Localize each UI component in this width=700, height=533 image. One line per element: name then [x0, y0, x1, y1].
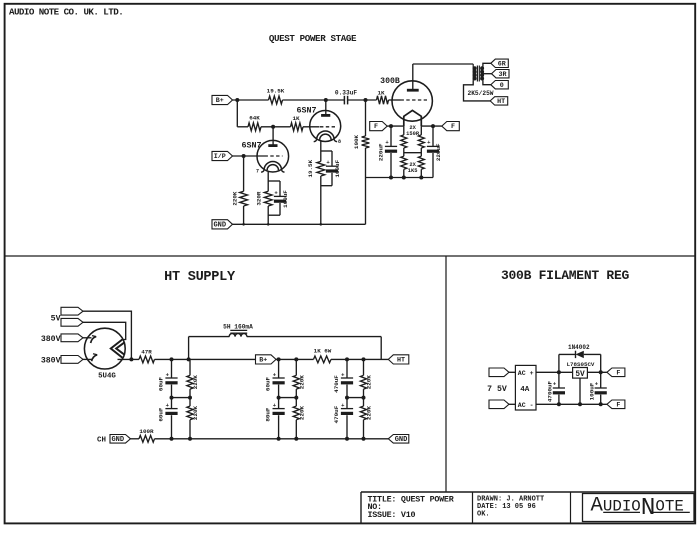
- svg-text:B+: B+: [259, 357, 267, 365]
- wire V2 plate stem: [325, 100, 327, 114]
- svg-text:F: F: [616, 369, 620, 377]
- resistor 1K 6W: [314, 356, 331, 363]
- label 100uF reg: [588, 382, 595, 400]
- svg-text:19.5K: 19.5K: [307, 159, 314, 177]
- svg-text:220K: 220K: [232, 191, 239, 206]
- node 5V winding b: [61, 318, 83, 326]
- node F out lower: [607, 400, 625, 409]
- label 19.5K: [267, 87, 285, 94]
- wire 64K to 1K: [261, 125, 291, 129]
- svg-text:GND: GND: [395, 436, 408, 444]
- resistor 220K row2 at x=296: [293, 406, 299, 420]
- V1 grid: [265, 155, 283, 157]
- label 60uF row1: [264, 376, 271, 391]
- resistor 220K row2 at x=363: [360, 406, 366, 420]
- transformer OPT secondary: [480, 66, 484, 80]
- wire 380V lower: [83, 358, 93, 360]
- title 300B FILAMENT REG: [501, 268, 630, 283]
- wire V1 cap bottom: [279, 203, 281, 215]
- svg-text:64K: 64K: [249, 115, 260, 122]
- label 60uF row1: [157, 376, 164, 391]
- label 80uF row2: [264, 407, 271, 422]
- node B+: [212, 95, 233, 105]
- node GND supply: [388, 435, 409, 444]
- wire B+ to 19.5K: [233, 98, 269, 102]
- section divider vertical: [445, 256, 447, 492]
- svg-text:220K: 220K: [366, 405, 373, 420]
- wire cap branch V1: [279, 181, 281, 196]
- resistor 1K grid stopper: [377, 96, 389, 104]
- resistor 19.5K cathode: [317, 161, 325, 176]
- svg-text:QUEST POWER STAGE: QUEST POWER STAGE: [269, 33, 357, 44]
- wire diode leg right: [600, 354, 602, 372]
- label 220K row2 at x=296: [299, 405, 306, 420]
- svg-text:1K 6W: 1K 6W: [314, 347, 332, 354]
- wire cap column bottom: [278, 415, 280, 439]
- svg-text:7 5V: 7 5V: [487, 385, 507, 394]
- V2 grid: [320, 126, 335, 128]
- resistor 150R right: [418, 135, 424, 148]
- label CH: [97, 436, 106, 444]
- svg-text:1K: 1K: [377, 89, 385, 96]
- node F left: [370, 122, 388, 132]
- label 220uF right: [435, 143, 442, 161]
- node 5V winding a: [61, 307, 83, 315]
- svg-text:5U4G: 5U4G: [98, 373, 116, 381]
- label 5V: [51, 314, 61, 323]
- label 220K row1 at x=363: [366, 375, 373, 390]
- triode V1 6SN7 envelope: [257, 140, 289, 172]
- wire ground rail: [233, 223, 366, 226]
- resistor 100K: [362, 136, 370, 148]
- svg-text:ISSUE: V10: ISSUE: V10: [368, 510, 416, 520]
- wire cap branch V2: [331, 151, 333, 166]
- wire B+ branch down: [236, 100, 238, 127]
- 5U4G anode lower: [92, 354, 98, 361]
- resistor 220K row1 at x=363: [360, 375, 366, 389]
- wire I/P to V1 grid: [233, 154, 265, 158]
- svg-text:220K: 220K: [192, 405, 199, 420]
- wire 5V b: [83, 322, 126, 339]
- wire sec top tap: [483, 63, 491, 66]
- wire 300B plate stem: [412, 64, 414, 89]
- wire mid tie: [277, 396, 299, 400]
- label L78S05CV: [567, 361, 595, 368]
- logo AUDIONOTE: [591, 495, 690, 522]
- wire cap column top 60uF: [278, 359, 280, 377]
- rectifier 5U4G envelope: [84, 328, 125, 369]
- wire cap column mid: [171, 385, 173, 409]
- label 64K: [249, 115, 260, 122]
- 300B grid: [401, 99, 428, 101]
- capacitor 100uF V1 bypass: [274, 196, 286, 202]
- capacitor 470uF row1: [341, 371, 353, 384]
- wire cap column top 470uF: [346, 359, 348, 377]
- svg-text:7: 7: [256, 169, 259, 175]
- node 380V lower: [61, 356, 83, 364]
- node CH GND: [110, 435, 131, 444]
- V2 cathode: [314, 131, 337, 142]
- diode 1N4002: [576, 351, 584, 358]
- resistor 1K5 right: [418, 156, 424, 169]
- wire cathode network bottom rail: [366, 176, 434, 180]
- capacitor 60uF row2: [165, 402, 177, 415]
- wire 47R to B+ rail: [155, 357, 256, 361]
- title block text middle: [477, 495, 544, 518]
- capacitor 60uF row1: [273, 371, 285, 384]
- capacitor 80uF row2: [273, 402, 285, 415]
- label 380V upper: [41, 335, 61, 344]
- wire supply ground rail: [155, 437, 389, 441]
- svg-text:100uF: 100uF: [282, 190, 289, 208]
- label 7 5V: [487, 385, 507, 394]
- transformer OPT core: [477, 66, 479, 82]
- node AC input lower: [489, 400, 509, 409]
- resistor 320R cathode: [264, 191, 272, 206]
- svg-text:220uF: 220uF: [377, 143, 384, 161]
- resistor 47R: [139, 356, 154, 363]
- V1 plate: [268, 144, 277, 147]
- label + left 220uF: [385, 139, 389, 146]
- label 100uF V1: [282, 190, 289, 208]
- wire diode top left: [559, 353, 576, 355]
- wire 220K bottom: [243, 206, 245, 224]
- wire 100K top: [365, 100, 367, 136]
- label 300B: [380, 77, 400, 86]
- wire reg out: [587, 370, 607, 374]
- label 2X 150R: [406, 125, 420, 137]
- wire 19.5K to cap: [283, 98, 345, 102]
- node I/P: [212, 151, 233, 161]
- svg-text:300B FILAMENT REG: 300B FILAMENT REG: [501, 268, 630, 283]
- svg-text:6R: 6R: [498, 60, 506, 68]
- transformer OPT primary: [473, 64, 477, 81]
- capacitor 470uF row2: [341, 402, 353, 415]
- svg-text:I/P: I/P: [214, 153, 226, 161]
- capacitor 220uF left: [385, 146, 397, 152]
- svg-text:HT: HT: [397, 357, 405, 365]
- wire choke riser left: [188, 337, 190, 360]
- wire 320R to gnd: [267, 206, 269, 224]
- capacitor 4700uF: [553, 372, 565, 404]
- svg-text:0.33uF: 0.33uF: [335, 90, 358, 97]
- resistor 150R left: [401, 135, 407, 148]
- wire V1 cath tie top: [268, 180, 280, 182]
- title block frame: [361, 492, 695, 523]
- node F right: [442, 122, 460, 132]
- wire V1 cathode down: [267, 171, 269, 181]
- V2 pin 8: [338, 139, 341, 145]
- wire V2 cath to gnd: [320, 176, 322, 224]
- wire res column top: [295, 359, 297, 375]
- wire V2 cap bottom: [331, 173, 333, 186]
- svg-text:1K5: 1K5: [408, 168, 418, 174]
- svg-text:3R: 3R: [498, 71, 506, 79]
- svg-text:100uF: 100uF: [334, 159, 341, 177]
- node 0: [491, 81, 509, 90]
- section divider horizontal: [5, 255, 696, 257]
- svg-text:4700uF: 4700uF: [547, 380, 554, 402]
- wire cap column top 60uF: [171, 359, 173, 377]
- svg-text:2K5/25W: 2K5/25W: [468, 90, 494, 97]
- resistor 220K row2 at x=190: [187, 406, 193, 420]
- wire V2 cath tie bottom: [321, 185, 332, 187]
- label 380V lower: [41, 356, 61, 365]
- wire 1K5 bottoms: [404, 169, 422, 177]
- wire sec bottom tap: [483, 81, 491, 85]
- svg-text:150R: 150R: [406, 131, 420, 137]
- title HT SUPPLY: [164, 270, 236, 285]
- label 6SN7 V1: [241, 140, 261, 150]
- choke 5H 160mA: [229, 330, 247, 336]
- svg-text:60uF: 60uF: [264, 376, 271, 391]
- svg-text:8: 8: [338, 139, 341, 145]
- svg-text:CH: CH: [97, 436, 106, 444]
- capacitor 220uF left top wire: [390, 126, 392, 146]
- svg-text:380V: 380V: [41, 356, 61, 365]
- label 19.5K cathode: [307, 159, 314, 177]
- svg-text:47R: 47R: [141, 348, 152, 355]
- wire res column bottom: [189, 420, 191, 439]
- svg-text:AUDIO NOTE CO. UK. LTD.: AUDIO NOTE CO. UK. LTD.: [9, 7, 123, 18]
- label 2K5/25W: [468, 90, 494, 97]
- wire F right rail: [421, 124, 442, 128]
- wire row2 left: [237, 126, 248, 128]
- wire CHGND to 100R: [131, 438, 140, 440]
- title QUEST POWER STAGE: [269, 33, 357, 44]
- bridge rectifier 4A: [515, 365, 536, 410]
- svg-text:6SN7: 6SN7: [296, 106, 316, 116]
- capacitor 220uF right: [427, 146, 439, 152]
- label 4700uF: [547, 380, 554, 402]
- wire 5V a: [83, 311, 131, 359]
- svg-text:B+: B+: [216, 97, 224, 105]
- 5U4G filament: [111, 340, 125, 358]
- wire res column top: [189, 359, 191, 375]
- label 220K: [232, 191, 239, 206]
- svg-text:5V: 5V: [51, 314, 61, 323]
- node B+ supply: [256, 355, 277, 365]
- svg-text:320R: 320R: [255, 191, 262, 206]
- 300B filament: [404, 110, 422, 126]
- wire choke top right: [247, 336, 381, 338]
- svg-text:F: F: [616, 401, 620, 409]
- label 5H 160mA: [223, 323, 253, 330]
- wire mid tie: [170, 396, 193, 400]
- svg-text:470uF: 470uF: [333, 405, 340, 423]
- wire cap column bottom: [171, 415, 173, 439]
- label 2X 1K5: [408, 162, 418, 174]
- wire 100K bottom: [365, 148, 367, 178]
- resistor 150R right wire top: [420, 126, 422, 135]
- svg-text:1K: 1K: [292, 115, 300, 122]
- wire bridge - out: [536, 402, 607, 406]
- svg-text:60uF: 60uF: [157, 407, 164, 422]
- title block text left: [368, 494, 455, 520]
- wire 1K6W to HT: [331, 357, 388, 361]
- wire V1 cath tie bottom: [268, 214, 280, 216]
- label 0.33uF: [335, 90, 358, 97]
- svg-text:5H 160mA: 5H 160mA: [223, 323, 253, 330]
- label 60uF row2: [157, 407, 164, 422]
- svg-text:100R: 100R: [139, 428, 154, 435]
- V1 cathode: [261, 162, 284, 173]
- svg-text:0: 0: [500, 82, 504, 90]
- 5U4G anode upper: [91, 336, 97, 343]
- svg-text:F: F: [374, 123, 378, 131]
- svg-text:80uF: 80uF: [264, 407, 271, 422]
- svg-text:220K: 220K: [366, 375, 373, 390]
- wire res column mid: [363, 389, 365, 406]
- capacitor 220uF right top wire: [432, 126, 434, 146]
- node GND power stage: [212, 220, 233, 230]
- resistor 64K: [248, 123, 261, 131]
- wire 220uF right bottom: [432, 153, 434, 178]
- svg-text:300B: 300B: [380, 77, 400, 86]
- wire mid tie: [345, 396, 366, 400]
- node 380V upper: [61, 334, 83, 342]
- resistor 100R: [139, 435, 154, 442]
- wire 1K to V2 grid: [303, 126, 320, 128]
- svg-text:1N4002: 1N4002: [568, 344, 590, 351]
- svg-text:5V: 5V: [575, 371, 585, 379]
- label 100R: [139, 428, 154, 435]
- power triode 300B envelope: [392, 81, 432, 121]
- label 5U4G: [98, 373, 116, 381]
- wire choke riser right: [380, 337, 382, 360]
- label 220K row1 at x=190: [192, 375, 199, 390]
- label + V2 cap: [326, 159, 330, 166]
- wire sec mid tap: [484, 73, 492, 75]
- svg-text:100uF: 100uF: [588, 382, 595, 400]
- label 220K row2 at x=190: [192, 405, 199, 420]
- wire cap column mid: [278, 385, 280, 409]
- resistor 1K5 left: [401, 156, 407, 169]
- label 470uF row1: [333, 375, 340, 393]
- wire choke top left: [189, 336, 230, 338]
- wire diode leg left: [558, 354, 560, 372]
- node 6R: [491, 59, 509, 68]
- resistor 220K grid leak: [240, 191, 248, 206]
- svg-text:220K: 220K: [192, 375, 199, 390]
- wire 1K to 300B grid: [389, 99, 401, 101]
- svg-text:AC -: AC -: [518, 402, 534, 409]
- wire 300B left leg: [403, 126, 405, 135]
- svg-text:GND: GND: [111, 436, 124, 444]
- wire V2 cathode down: [320, 141, 322, 151]
- label 1K 6W: [314, 347, 332, 354]
- resistor 19.5K plate: [269, 96, 283, 104]
- resistor 220K row1 at x=296: [293, 375, 299, 389]
- node 3R: [492, 70, 510, 79]
- label 6SN7 V2: [296, 106, 316, 116]
- wire primary to HT: [464, 81, 491, 101]
- svg-text:HT: HT: [497, 98, 505, 106]
- wire F left rail: [387, 124, 404, 128]
- label 220K row1 at x=296: [299, 375, 306, 390]
- label 100uF V2: [334, 159, 341, 177]
- label 100K: [353, 134, 360, 149]
- svg-text:220uF: 220uF: [435, 143, 442, 161]
- wire 320R top: [267, 181, 269, 191]
- resistor 1K interstage: [291, 123, 304, 131]
- label 1K: [377, 89, 385, 96]
- svg-text:220K: 220K: [299, 405, 306, 420]
- svg-text:19.5K: 19.5K: [267, 87, 285, 94]
- node F out upper: [607, 368, 625, 377]
- label + right 220uF: [427, 139, 431, 146]
- wire cap to 1K: [348, 98, 377, 102]
- header company name: [9, 7, 123, 18]
- regulator L78S05CV: [573, 368, 588, 379]
- wire V2 cath tie top: [321, 150, 332, 152]
- wire ground rail riser: [365, 178, 367, 225]
- wire res column bottom: [295, 420, 297, 439]
- label 320R: [255, 191, 262, 206]
- svg-text:220K: 220K: [299, 375, 306, 390]
- wire plate to OPT: [413, 63, 473, 65]
- wire AC+ in: [509, 371, 515, 373]
- label 470uF row2: [333, 405, 340, 423]
- svg-text:HT SUPPLY: HT SUPPLY: [164, 270, 236, 285]
- svg-text:AC +: AC +: [518, 370, 534, 377]
- wire AC- in: [509, 403, 515, 405]
- wire 380V upper: [83, 337, 92, 339]
- label 1K (interstage): [292, 115, 300, 122]
- svg-text:380V: 380V: [41, 335, 61, 344]
- wire cathode mid rail: [404, 148, 422, 156]
- wire 220K top: [243, 156, 245, 191]
- logo box: [583, 494, 695, 522]
- svg-text:GND: GND: [213, 221, 226, 229]
- V1 pin 7: [256, 169, 259, 175]
- svg-text:60uF: 60uF: [157, 376, 164, 391]
- wire diode top right: [584, 353, 601, 355]
- wire res column mid: [189, 389, 191, 406]
- wire res column mid: [295, 389, 297, 406]
- wire res column bottom: [363, 420, 365, 439]
- label 220K row2 at x=363: [366, 405, 373, 420]
- triode V2 6SN7 envelope: [310, 111, 341, 142]
- wire 220uF left bottom: [390, 153, 392, 178]
- capacitor 60uF row1: [165, 371, 177, 384]
- capacitor 0.33uF: [344, 96, 347, 105]
- label + V1 cap: [274, 189, 278, 196]
- svg-text:4A: 4A: [520, 386, 530, 394]
- label 1N4002: [568, 344, 590, 351]
- V2 plate: [321, 114, 330, 117]
- svg-text:L78S05CV: L78S05CV: [567, 361, 595, 368]
- wire res column top: [363, 359, 365, 375]
- svg-text:470uF: 470uF: [333, 375, 340, 393]
- wire V1 plate stem: [272, 127, 274, 145]
- node HT supply out: [388, 355, 409, 365]
- resistor 220K row1 at x=190: [187, 375, 193, 389]
- wire B+ to 1K6W: [276, 357, 314, 361]
- capacitor 100uF reg: [595, 372, 607, 404]
- wire bridge + out: [536, 370, 573, 374]
- wire reg gnd pin: [579, 378, 581, 404]
- wire cap column mid: [346, 385, 348, 409]
- label 47R: [141, 348, 152, 355]
- label 220uF left: [377, 143, 384, 161]
- capacitor 100uF V2 bypass: [326, 166, 338, 172]
- svg-text:100K: 100K: [353, 134, 360, 149]
- wire rectifier output: [118, 357, 140, 361]
- 300B plate: [407, 89, 419, 92]
- svg-text:F: F: [451, 123, 455, 131]
- node HT: [490, 97, 508, 106]
